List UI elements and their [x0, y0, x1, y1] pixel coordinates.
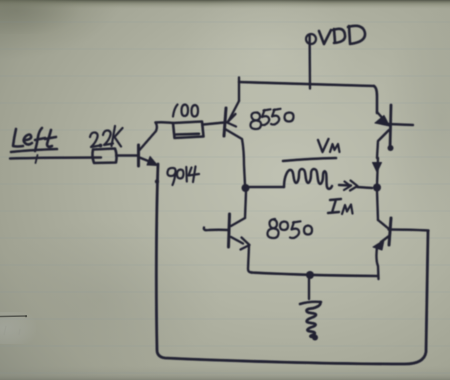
transistor Q1 9014 base bar	[137, 145, 140, 166]
wire: N1 to motor coil	[249, 186, 284, 188]
wire: Q4 emitter down to bottom bar	[248, 246, 252, 273]
transistor Q5 base lead	[389, 230, 429, 231]
label 2.2K	[90, 126, 123, 147]
resistor R1 2.2K box	[92, 149, 116, 164]
transistor Q4 8050 collector	[231, 218, 245, 226]
motor M coil	[284, 169, 332, 189]
resistor R3 top tick	[300, 302, 321, 304]
transistor Q4 emitter arrowhead	[241, 238, 250, 250]
wire: R2 to Q2 base	[204, 123, 225, 125]
transistor Q5 emitter arrowhead	[373, 240, 384, 250]
current arrow IM head	[344, 181, 358, 191]
blob on outer wire	[155, 179, 159, 183]
paper mottling	[0, 0, 1, 1]
label VM	[318, 139, 340, 152]
wire: arrow to N2	[357, 187, 372, 188]
label Left	[11, 128, 57, 152]
VDD terminal circle	[306, 34, 316, 44]
transistor Q5 base bar	[389, 218, 391, 245]
transistor Q5 emitter	[381, 236, 389, 242]
transistor Q1 emitter arrowhead	[147, 157, 158, 166]
transistor Q5 collector	[378, 220, 389, 229]
transistor Q3 (right PNP) emitter	[377, 112, 386, 122]
tick on input wire	[36, 155, 38, 163]
node N2 junction dot	[373, 184, 381, 192]
node N3 junction dot	[306, 271, 314, 279]
outer loop wire: Q1 emitter to Q5 base	[156, 164, 428, 364]
collector current arrowhead	[373, 163, 382, 173]
transistor Q2 emitter	[228, 101, 239, 122]
transistor Q2 8550 base bar	[224, 108, 226, 136]
transistor Q4 emitter	[231, 237, 243, 244]
resistor R3 end blob	[312, 335, 318, 341]
VDD rail (top bar)	[239, 82, 374, 86]
transistor Q1 emitter	[140, 158, 153, 163]
resistor R3 squiggle	[307, 302, 321, 337]
node N1 junction dot	[242, 184, 250, 192]
transistor Q3 collector	[377, 130, 389, 158]
transistor Q2 emitter wire from VDD rail	[238, 78, 240, 102]
wire: N3 down to sense resistor	[308, 279, 310, 299]
transistor Q3 emitter arrowhead	[375, 116, 390, 127]
current arrow IM (shaft)	[339, 184, 351, 187]
transistor Q1 collector	[140, 123, 157, 151]
pencil mark bottom-left	[0, 312, 36, 344]
transistor Q3 base lead	[388, 124, 413, 125]
label VDD	[319, 26, 365, 44]
transistor Q4 base bar	[229, 214, 230, 247]
label 8050	[267, 219, 312, 238]
resistor R2 100 box	[173, 122, 204, 139]
label 9014	[167, 167, 199, 186]
transistor Q3 base bar end blob	[388, 145, 394, 151]
wire: N1 down to Q4	[245, 192, 246, 218]
label 8550	[250, 109, 293, 129]
wire: N2 down to Q5	[377, 191, 378, 220]
wire: R1 to Q1 base	[116, 154, 137, 156]
wire: Q5 emitter down to bottom bar	[376, 247, 378, 279]
wire: VDD stem	[308, 35, 311, 89]
transistor Q2 emitter arrowhead (PNP into base)	[227, 114, 236, 127]
label 100	[173, 105, 198, 117]
wire: Q3 collector down with arrowhead	[377, 158, 378, 185]
wire: rail right corner down	[374, 86, 377, 113]
transistor Q3 base bar	[390, 105, 391, 149]
bottom bar wire	[251, 273, 377, 277]
label IM	[328, 199, 353, 214]
wire: Left input to R1	[10, 158, 101, 159]
wire: Q1 collector to R2	[156, 121, 174, 124]
VM underline	[283, 158, 336, 161]
transistor Q2 collector	[225, 129, 245, 185]
transistor Q4 base lead	[204, 228, 228, 231]
